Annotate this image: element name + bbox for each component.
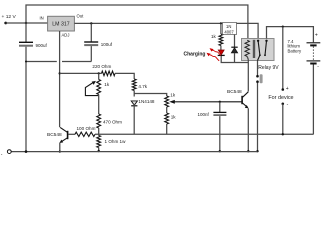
- svg-text:1 Ohm 1w: 1 Ohm 1w: [105, 139, 127, 144]
- wire ground link C2 to C1: [62, 61, 91, 63]
- node +12V input terminal: [4, 22, 7, 25]
- wire D2 to sense rail: [133, 104, 135, 134]
- svg-text:BC548: BC548: [227, 89, 242, 95]
- svg-text:Charging: Charging: [184, 51, 206, 57]
- svg-text:LM 317: LM 317: [52, 22, 69, 28]
- svg-text:Battery: Battery: [288, 49, 302, 54]
- wire pot top lead: [98, 73, 100, 79]
- wire relay contact pin down: [257, 61, 259, 76]
- wire Rs to bottom rail: [98, 148, 100, 152]
- wire For-device plus column: [282, 27, 284, 90]
- wire cap top lead: [219, 102, 221, 112]
- svg-text:1k: 1k: [171, 114, 177, 119]
- wire top rail A: [26, 5, 248, 39]
- wire Q1 emitter to rail: [59, 143, 61, 152]
- svg-text:1N: 1N: [226, 24, 231, 29]
- wire output B: [74, 23, 258, 38]
- svg-text:100 Ohm: 100 Ohm: [77, 126, 96, 131]
- wire pot to R470: [98, 95, 100, 115]
- svg-text:IN: IN: [40, 16, 44, 21]
- wire left ground drop: [25, 23, 27, 42]
- LED arrows: [207, 48, 221, 61]
- svg-text:1k: 1k: [170, 93, 176, 98]
- resistor R4 1k lower: [165, 113, 169, 124]
- relay coil: [245, 40, 249, 56]
- diode D2 1N4148: [131, 101, 137, 105]
- node output junction C2: [90, 22, 92, 24]
- relay contacts: [257, 40, 259, 42]
- diode D3 1N4007 label box: [223, 23, 237, 35]
- capacitor C3 100nf: [213, 111, 226, 113]
- svg-text:Relay 9V: Relay 9V: [258, 65, 279, 71]
- capacitor C2 100uf: [84, 41, 98, 43]
- svg-text:BC548: BC548: [47, 132, 62, 138]
- svg-text:ADJ: ADJ: [62, 33, 70, 38]
- relay core bar: [253, 40, 255, 58]
- trimmer R3 1k upper: [165, 96, 169, 107]
- relay K1 box: [242, 39, 275, 61]
- node junction J1: [25, 22, 27, 24]
- diode D3 1N4007 symbol: [231, 46, 237, 48]
- wire C2 bottom lead: [90, 46, 92, 61]
- wire 1k to LED: [220, 46, 222, 50]
- resistor R2 4.7k: [132, 79, 136, 91]
- svg-text:900uf: 900uf: [36, 43, 48, 48]
- node ADJ tee: [59, 72, 61, 74]
- wire ADJ column: [59, 31, 61, 127]
- wire LED cathode to coil node: [221, 56, 248, 63]
- wire 4.7k bottom junction: [133, 91, 135, 97]
- svg-text:For device: For device: [268, 95, 293, 101]
- trimmer arrow wiper: [175, 101, 243, 103]
- node rail junction left: [25, 150, 28, 153]
- svg-text:100uf: 100uf: [101, 42, 113, 47]
- node LED branch tap: [220, 22, 222, 24]
- wire ADJ to R220: [60, 72, 102, 74]
- svg-text:220 Ohm: 220 Ohm: [92, 64, 111, 69]
- svg-text:4.7k: 4.7k: [138, 84, 147, 89]
- svg-text:1k: 1k: [211, 34, 217, 39]
- wire input to junction: [6, 22, 48, 24]
- node For-device plus terminal: [282, 88, 285, 91]
- node output minus terminal circle: [7, 150, 11, 154]
- resistor Rb 100 Ohm base: [68, 133, 75, 135]
- svg-text:Out: Out: [77, 14, 85, 19]
- wire to trimmer column: [134, 94, 167, 97]
- wire label box to diode: [234, 35, 236, 48]
- svg-text:+: +: [315, 32, 318, 38]
- node For-device minus terminal: [282, 103, 285, 106]
- resistor R5 1k LED: [219, 34, 223, 46]
- LED D1 red: [218, 50, 224, 55]
- pot wiper arrow: [85, 83, 98, 96]
- node base wire cap junction: [219, 101, 221, 103]
- wire cap bottom to bottom rail: [219, 116, 221, 151]
- wire Q2 emitter to bottom rail: [247, 108, 249, 151]
- node pot tap: [98, 72, 100, 74]
- wire diode anode down: [234, 53, 236, 63]
- wire C2 top lead: [90, 23, 92, 41]
- wire Rb to sense node / sense rail right: [95, 133, 314, 135]
- wire connector to bottom rail: [257, 83, 259, 151]
- svg-text:100nf: 100nf: [198, 112, 210, 117]
- svg-text:1N4148: 1N4148: [138, 99, 155, 104]
- wire trimmer middle: [166, 107, 168, 113]
- svg-text:+: +: [286, 86, 289, 92]
- connector P1: [256, 75, 259, 78]
- wire battery minus to sense rail: [312, 65, 314, 135]
- wire R470 to sense junction: [98, 128, 100, 136]
- bottom rail output minus: [11, 151, 257, 153]
- resistor Rs 1 Ohm 1w: [97, 136, 101, 148]
- wire R4 to sense rail: [166, 124, 168, 134]
- wire For-device minus column: [282, 104, 284, 135]
- resistor R220 220 Ohm: [102, 71, 116, 76]
- resistor R470 470 Ohm: [97, 114, 101, 128]
- svg-text:470 Ohm: 470 Ohm: [103, 119, 122, 124]
- potentiometer VR1 1k: [97, 80, 101, 95]
- wire relay common up and to battery C: [267, 27, 314, 43]
- wire coil bottom to collector: [247, 60, 249, 92]
- svg-text:+ 12 V: + 12 V: [2, 14, 17, 20]
- wire R220 to 4.7k column: [115, 73, 134, 79]
- svg-text:4007: 4007: [224, 30, 234, 35]
- svg-text:1k: 1k: [104, 82, 110, 87]
- wire C1 bottom to bottom rail: [25, 47, 27, 152]
- capacitor C1 900uf: [19, 41, 33, 43]
- node For-device plus tap: [282, 26, 284, 28]
- wire tap to 1k: [220, 23, 222, 34]
- regulator U1 LM317: [48, 16, 75, 31]
